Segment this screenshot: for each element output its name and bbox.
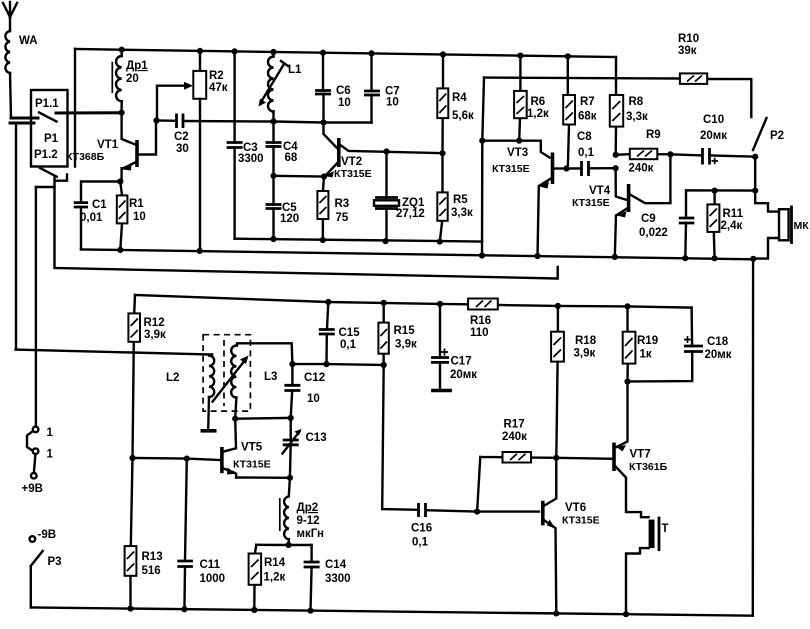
svg-text:20мк: 20мк <box>705 349 732 361</box>
transistor VT5 <box>222 419 271 478</box>
node bus-L1 <box>270 49 276 55</box>
node R9/VT4 collector <box>667 151 673 157</box>
capacitor C4 <box>266 122 299 176</box>
switch P1.2 arm <box>40 168 67 181</box>
resistor R5 <box>437 153 473 241</box>
capacitor C11 <box>177 459 225 611</box>
capacitor C2 <box>174 114 189 156</box>
svg-text:P1.2: P1.2 <box>34 149 58 161</box>
wire collector node link <box>235 417 291 420</box>
node C14 bottom <box>307 608 313 614</box>
svg-text:P1: P1 <box>44 133 59 145</box>
wire antenna to P1.1 <box>11 117 38 120</box>
svg-text:3,9к: 3,9к <box>144 329 166 341</box>
wire R15 bottom down to C16 line <box>382 365 418 510</box>
inductor L1 variable <box>259 52 303 122</box>
node VT3 base/R7/C8 <box>563 165 569 171</box>
svg-text:10: 10 <box>133 211 146 223</box>
svg-text:10: 10 <box>338 97 351 109</box>
node C9 bottom <box>682 255 688 261</box>
svg-text:30: 30 <box>176 143 189 155</box>
svg-text:1,2к: 1,2к <box>264 572 286 584</box>
resistor R8 <box>610 57 648 155</box>
node R12/R13/base line <box>129 455 135 461</box>
svg-text:R10: R10 <box>678 33 699 45</box>
node L3 top/C12 <box>289 361 295 367</box>
svg-text:R12: R12 <box>144 317 165 329</box>
switch P1 box <box>31 90 68 167</box>
svg-text:VT6: VT6 <box>565 502 586 514</box>
resistor R17 <box>477 419 556 512</box>
svg-text:27,12: 27,12 <box>396 208 425 220</box>
node VT4 emitter bottom <box>612 254 618 260</box>
node C5 bottom <box>270 236 276 242</box>
svg-text:3,9к: 3,9к <box>395 339 417 351</box>
resistor R12 <box>128 295 166 458</box>
svg-text:20: 20 <box>126 73 139 85</box>
svg-text:VT3: VT3 <box>507 147 528 159</box>
crystal ZQ1 <box>374 152 425 242</box>
node T bottom <box>623 611 629 617</box>
transistor VT4 <box>572 154 670 257</box>
svg-text:1: 1 <box>47 427 54 439</box>
switch P1.1 arm <box>39 113 57 122</box>
node bus-R2 <box>197 48 203 54</box>
svg-text:мкГн: мкГн <box>297 528 324 540</box>
svg-text:L2: L2 <box>166 372 179 384</box>
arrow variable coupling <box>213 360 246 402</box>
svg-text:R19: R19 <box>637 335 658 347</box>
svg-text:C11: C11 <box>200 559 221 571</box>
resistor R4 <box>437 54 474 153</box>
resistor R15 <box>378 303 417 365</box>
svg-text:-9В: -9В <box>38 529 57 541</box>
node R2 bottom <box>197 248 203 254</box>
svg-text:0,1: 0,1 <box>340 339 357 351</box>
transistor VT6 <box>543 458 600 614</box>
wire antenna lower stub <box>10 122 34 125</box>
node VT3 emitter bottom <box>534 253 540 259</box>
svg-text:L1: L1 <box>288 64 302 76</box>
capacitor C15 <box>319 302 360 364</box>
capacitor C6 <box>315 53 351 123</box>
node R3 bottom <box>320 237 326 243</box>
svg-text:КТ315Е: КТ315Е <box>572 197 610 209</box>
svg-text:C8: C8 <box>577 131 592 143</box>
capacitor C18 electrolytic <box>628 308 732 382</box>
svg-text:5,6к: 5,6к <box>452 110 474 122</box>
node bus-R7 <box>565 53 571 59</box>
node C8/VT4 base <box>613 165 619 171</box>
long mid bus y250 <box>81 249 753 615</box>
node bus-R6 <box>517 53 523 59</box>
svg-text:1: 1 <box>47 449 54 461</box>
wire y78 line to R10 and P2 <box>484 78 751 117</box>
svg-text:20мк: 20мк <box>450 369 477 381</box>
wire VT6 collector to VT7 base <box>556 458 612 459</box>
svg-text:C17: C17 <box>451 356 472 368</box>
choke Dr1 <box>112 50 148 113</box>
node VT1 base <box>119 110 125 116</box>
svg-text:VT4: VT4 <box>589 185 611 197</box>
resistor R13 <box>125 458 163 609</box>
node R1 bottom <box>117 247 123 253</box>
svg-text:3300: 3300 <box>325 573 351 585</box>
node C9/R11 line <box>712 188 718 194</box>
wire left bus vertical <box>74 49 76 167</box>
svg-text:C2: C2 <box>174 131 189 143</box>
svg-text:10: 10 <box>386 97 399 109</box>
resistor R1 <box>117 182 146 250</box>
node C4/C5 <box>270 173 276 179</box>
wire base line VT5 <box>133 458 220 460</box>
node C11 bottom <box>181 606 187 612</box>
svg-text:0,01: 0,01 <box>80 212 103 224</box>
wire VT1 collector line with C2 <box>157 121 372 123</box>
wire antenna line to L2 <box>16 350 212 355</box>
capacitor C1 <box>74 182 121 250</box>
antenna WA <box>3 2 38 118</box>
svg-text:3300: 3300 <box>238 153 264 165</box>
capacitor C12 <box>284 364 325 418</box>
wire P1.1 contact to VT1 base <box>56 111 122 114</box>
switch P3 and -9V terminal <box>30 529 62 607</box>
svg-text:C18: C18 <box>707 336 729 348</box>
wire R14/C14 link <box>256 544 311 547</box>
svg-text:R7: R7 <box>580 96 595 108</box>
switch P2 <box>753 118 784 150</box>
node bus-R18 <box>555 303 561 309</box>
svg-text:R8: R8 <box>629 96 644 108</box>
ground-ish bus of top section <box>235 239 482 242</box>
node VT1 collector <box>153 117 159 123</box>
svg-text:3,9к: 3,9к <box>574 348 596 360</box>
node bus-R15 <box>381 300 387 306</box>
svg-text:P1.1: P1.1 <box>35 98 59 110</box>
svg-text:75: 75 <box>336 212 349 224</box>
svg-text:+9В: +9В <box>22 483 43 495</box>
svg-text:C12: C12 <box>304 372 325 384</box>
wire VT5 emitter line <box>236 476 290 479</box>
capacitor C9 <box>639 190 755 258</box>
svg-text:1к: 1к <box>640 349 652 361</box>
svg-text:R14: R14 <box>264 557 286 569</box>
svg-text:68к: 68к <box>578 111 597 123</box>
svg-text:C6: C6 <box>336 85 351 97</box>
transistor VT7 <box>614 382 668 518</box>
svg-text:R13: R13 <box>142 551 163 563</box>
node bus-C7 <box>368 50 374 56</box>
svg-text:C14: C14 <box>325 559 347 571</box>
resistor R10 <box>678 33 707 84</box>
svg-text:2,4к: 2,4к <box>721 220 743 232</box>
svg-text:C16: C16 <box>411 523 432 535</box>
svg-text:9-12: 9-12 <box>297 515 320 527</box>
resistor R7 <box>563 56 597 168</box>
svg-text:R18: R18 <box>575 335 597 347</box>
svg-text:КТ361Б: КТ361Б <box>629 461 668 473</box>
wire y364 line <box>292 363 383 366</box>
svg-text:R6: R6 <box>531 96 546 108</box>
svg-text:Р3: Р3 <box>48 556 62 568</box>
svg-text:R5: R5 <box>453 194 468 206</box>
wire emitter node line <box>274 175 325 178</box>
svg-text:МК: МК <box>794 220 810 232</box>
bottom ground bus <box>31 607 753 615</box>
node C12 bottom/C13 <box>288 415 294 421</box>
svg-text:P2: P2 <box>770 130 784 142</box>
node R17/R18/VT6 collector <box>553 455 559 461</box>
svg-text:Др2: Др2 <box>297 502 319 514</box>
svg-text:1,2к: 1,2к <box>527 108 549 120</box>
resistor R18 <box>551 306 597 458</box>
svg-text:10: 10 <box>307 393 320 405</box>
wire R6-VT3 collector line <box>482 141 549 158</box>
node bus-R19 <box>624 303 630 309</box>
capacitor C13 trimmer <box>283 418 327 478</box>
node C10/P2/MK column <box>752 154 758 160</box>
wire link P1.2 to +9V column <box>36 186 55 188</box>
svg-text:R3: R3 <box>335 198 350 210</box>
resistor R6 <box>514 56 549 141</box>
svg-text:Др1: Др1 <box>126 60 148 72</box>
resistor R14 <box>249 545 286 610</box>
node R5 bottom <box>437 239 443 245</box>
wire P1.2 contact down and right to x558 <box>55 178 558 279</box>
svg-text:0,1: 0,1 <box>578 147 595 159</box>
svg-text:C9: C9 <box>641 213 656 225</box>
node MK bottom <box>750 256 756 262</box>
svg-text:КТ315Е: КТ315Е <box>492 163 530 175</box>
svg-text:C15: C15 <box>339 327 361 339</box>
node MK column mid <box>752 188 758 194</box>
svg-text:C13: C13 <box>306 432 327 444</box>
node ZQ1 bottom <box>382 238 388 244</box>
node R13 bottom <box>127 606 133 612</box>
core dashed line <box>223 340 225 406</box>
node R6 bottom <box>516 138 522 144</box>
svg-text:39к: 39к <box>678 45 697 57</box>
node VT6 emitter bottom <box>553 610 559 616</box>
bottom section supply bus y298 <box>135 295 692 308</box>
svg-text:КТ315Е: КТ315Е <box>334 168 372 180</box>
wire +9V column down <box>35 187 37 427</box>
svg-text:R9: R9 <box>646 129 661 141</box>
svg-text:516: 516 <box>142 565 161 577</box>
svg-text:КТ315Е: КТ315Е <box>562 515 600 527</box>
svg-text:R17: R17 <box>504 419 525 431</box>
transistor VT1 <box>66 113 156 182</box>
svg-text:240к: 240к <box>502 431 527 443</box>
potentiometer R2 <box>157 51 228 251</box>
node R15 bottom <box>381 362 387 368</box>
node VT2 emitter/C4/C5/R3 <box>321 173 327 179</box>
svg-text:R4: R4 <box>452 92 467 104</box>
inductor L2 <box>166 355 217 431</box>
top supply bus <box>75 49 616 57</box>
svg-text:WA: WA <box>19 35 38 47</box>
node R14 bottom <box>251 607 257 613</box>
svg-text:47к: 47к <box>209 82 228 94</box>
wire x484 vertical <box>482 78 484 256</box>
node C6/VT2 base <box>320 119 326 125</box>
svg-text:VT5: VT5 <box>241 442 263 454</box>
telephone T <box>626 517 669 615</box>
resistor R11 <box>707 191 743 259</box>
resistor R9 <box>616 129 701 175</box>
+9V terminal contacts 1-1 <box>22 427 54 495</box>
svg-text:3,3к: 3,3к <box>626 111 648 123</box>
svg-text:C10: C10 <box>703 114 724 126</box>
node x484/R6 line <box>479 138 485 144</box>
capacitor C7 <box>364 53 400 122</box>
svg-text:240к: 240к <box>629 163 654 175</box>
node Dr2 bottom <box>286 542 292 548</box>
node VT2 collector/ZQ1 <box>383 148 389 154</box>
resistor R3 <box>317 177 349 241</box>
svg-text:20мк: 20мк <box>700 130 727 142</box>
node C15 bottom <box>323 361 329 367</box>
svg-text:120: 120 <box>280 213 299 225</box>
transistor VT3 <box>492 147 567 256</box>
node C16/R17 <box>474 509 480 515</box>
svg-text:КТ368Б: КТ368Б <box>66 151 105 163</box>
capacitor C10 <box>700 114 755 165</box>
capacitor C8 <box>567 131 616 176</box>
node x484 bottom <box>479 252 485 258</box>
resistor R16 <box>468 299 498 340</box>
node bus-R4 <box>440 51 446 57</box>
svg-text:L3: L3 <box>264 371 277 383</box>
node VT1 emitter <box>117 178 123 184</box>
capacitor C16 <box>411 503 539 549</box>
node bus-C3 <box>232 48 238 54</box>
svg-text:VT2: VT2 <box>341 156 362 168</box>
wire left vertical to L2 line <box>15 123 17 350</box>
transistor VT2 <box>324 123 443 181</box>
svg-text:C1: C1 <box>92 199 107 211</box>
choke Dr2 <box>280 478 324 545</box>
svg-text:R2: R2 <box>209 70 224 82</box>
node bus-C6 <box>320 50 326 56</box>
resistor R19 <box>623 306 658 381</box>
node R11 bottom <box>712 255 718 261</box>
node L3 bottom/VT5 collector <box>232 416 238 422</box>
svg-text:Т: Т <box>662 523 669 535</box>
microphone MK <box>754 157 810 259</box>
node VT7 emitter/R19/C18 <box>624 378 630 384</box>
svg-text:3,3к: 3,3к <box>451 207 473 219</box>
node bus-C17 <box>437 301 443 307</box>
svg-text:КТ315Е: КТ315Е <box>233 459 271 471</box>
svg-text:68: 68 <box>285 152 298 164</box>
node R8/R9 <box>613 152 619 158</box>
svg-text:1000: 1000 <box>200 573 226 585</box>
capacitor C5 <box>266 176 300 239</box>
svg-text:R1: R1 <box>129 198 144 210</box>
transformer shield dashed box <box>203 335 250 411</box>
node bus-C15 <box>325 299 331 305</box>
svg-text:0,022: 0,022 <box>639 227 668 239</box>
node C11 top <box>184 456 190 462</box>
node emitter/C13/Dr2 <box>287 475 293 481</box>
node L1/C4 <box>270 118 276 124</box>
capacitor C17 electrolytic <box>431 304 477 391</box>
svg-text:R16: R16 <box>470 315 491 327</box>
capacitor C3 <box>227 51 264 238</box>
inductor L3 <box>231 343 292 418</box>
svg-text:0,1: 0,1 <box>412 537 429 549</box>
capacitor C14 <box>304 545 351 611</box>
svg-text:110: 110 <box>470 327 489 339</box>
svg-text:R15: R15 <box>394 325 416 337</box>
svg-text:VT1: VT1 <box>97 139 119 151</box>
svg-text:R11: R11 <box>723 208 744 220</box>
node R4/R5 <box>439 150 445 156</box>
svg-text:VT7: VT7 <box>630 449 651 461</box>
node bus-dr1 <box>119 47 125 53</box>
